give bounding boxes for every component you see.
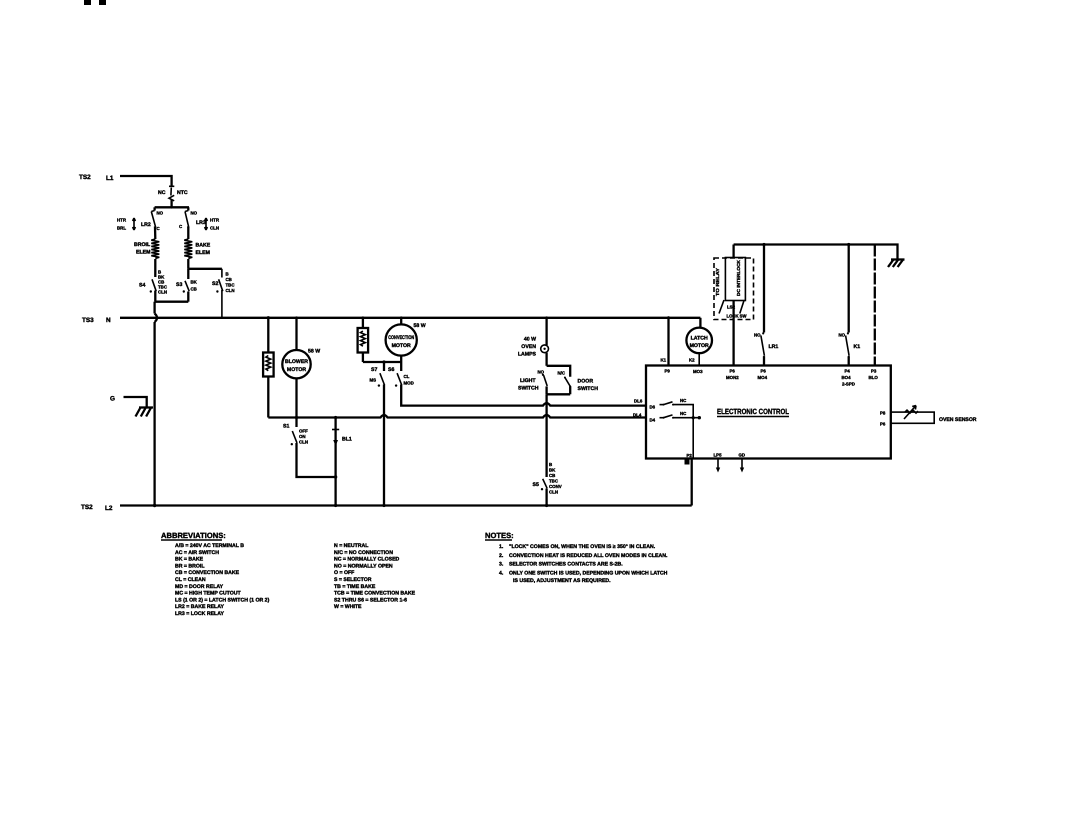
- svg-text:SELECTOR SWITCHES CONTACTS ARE: SELECTOR SWITCHES CONTACTS ARE S-2B.: [509, 562, 623, 568]
- svg-text:W = WHITE: W = WHITE: [334, 604, 362, 610]
- svg-text:SWITCH: SWITCH: [518, 386, 539, 392]
- svg-text:CL = CLEAN: CL = CLEAN: [175, 577, 206, 583]
- svg-text:S2: S2: [212, 281, 218, 287]
- svg-text:NC: NC: [680, 411, 687, 416]
- svg-text:LOCK SW: LOCK SW: [727, 314, 748, 319]
- svg-text:NC: NC: [680, 398, 687, 403]
- wire latch motor top: [699, 318, 701, 328]
- pin GD arrow: [739, 453, 746, 473]
- relay contact LR2: [117, 207, 164, 231]
- svg-text:IS USED, ADJUSTMENT AS REQUIRE: IS USED, ADJUSTMENT AS REQUIRED.: [513, 578, 611, 584]
- wire latch drop: [726, 245, 739, 381]
- svg-text:NOTES:: NOTES:: [485, 531, 514, 540]
- node bar after NTC: [155, 206, 189, 208]
- wire L1 to NTC: [120, 176, 172, 184]
- svg-text:CB: CB: [226, 277, 232, 282]
- svg-text:K2: K2: [689, 358, 695, 363]
- pin P2 bottom: [685, 453, 693, 506]
- bus N: [120, 317, 700, 319]
- svg-text:P6: P6: [880, 422, 886, 427]
- contact K upper NC: [660, 398, 694, 418]
- svg-text:S2 THRU S6 = SELECTOR 1-6: S2 THRU S6 = SELECTOR 1-6: [334, 597, 407, 603]
- svg-text:CL: CL: [404, 374, 410, 379]
- svg-text:NC: NC: [158, 190, 166, 196]
- svg-text:NO: NO: [157, 211, 164, 216]
- svg-text:OVEN SENSOR: OVEN SENSOR: [939, 417, 977, 423]
- svg-text:HTR: HTR: [210, 218, 220, 223]
- relay contact LR1: [754, 243, 778, 380]
- svg-text:B: B: [549, 462, 552, 467]
- svg-text:OFF: OFF: [299, 429, 308, 434]
- svg-text:DL6: DL6: [634, 398, 643, 403]
- top rail: [734, 245, 898, 260]
- svg-text:2-SPD: 2-SPD: [842, 382, 855, 387]
- svg-text:L2: L2: [105, 505, 113, 512]
- svg-text:BROIL: BROIL: [134, 242, 151, 248]
- svg-text:LATCH: LATCH: [691, 335, 708, 341]
- svg-text:4.: 4.: [499, 570, 504, 576]
- svg-text:S1: S1: [283, 424, 289, 430]
- heating element BAKE ELEM: [184, 239, 210, 258]
- svg-text:CB = CONVECTION BAKE: CB = CONVECTION BAKE: [175, 570, 240, 576]
- junction N bus: [267, 316, 270, 319]
- contact K lower NC: [660, 411, 702, 419]
- svg-text:MOTOR: MOTOR: [392, 343, 411, 349]
- svg-text:D6: D6: [650, 405, 656, 410]
- svg-text:LR1: LR1: [769, 344, 779, 350]
- oven lamps: [518, 318, 549, 366]
- svg-text:P2: P2: [687, 453, 693, 458]
- terminal TS2 L1: [79, 174, 114, 182]
- wire S1 to BL1 line: [297, 443, 336, 477]
- latch motor M3: [686, 328, 712, 374]
- svg-text:ELECTRONIC CONTROL: ELECTRONIC CONTROL: [717, 407, 789, 416]
- svg-text:S5: S5: [533, 482, 539, 488]
- svg-text:N/C: N/C: [558, 371, 566, 376]
- svg-text:BRL: BRL: [117, 226, 126, 231]
- svg-text:MO3: MO3: [693, 369, 703, 374]
- pin DL6: [634, 398, 656, 409]
- svg-text:NO = NORMALLY OPEN: NO = NORMALLY OPEN: [334, 563, 393, 569]
- svg-text:ELEM: ELEM: [196, 250, 210, 256]
- wire P3 BLO: [869, 245, 879, 381]
- light switch: [518, 366, 570, 392]
- abbreviations column 1: [175, 543, 270, 617]
- svg-text:DL4: DL4: [633, 413, 642, 418]
- switch S5: [533, 462, 562, 506]
- switch S6: [388, 362, 414, 387]
- svg-text:O = OFF: O = OFF: [334, 570, 354, 576]
- svg-text:BK: BK: [549, 468, 556, 473]
- svg-text:MD = DOOR RELAY: MD = DOOR RELAY: [175, 584, 224, 590]
- latch switch assembly dashed box: [714, 258, 754, 320]
- pin DL4: [633, 413, 656, 423]
- wire RES1 to DL4: [268, 415, 646, 418]
- svg-text:NC = NORMALLY CLOSED: NC = NORMALLY CLOSED: [334, 557, 400, 563]
- svg-text:BK: BK: [191, 280, 198, 285]
- svg-text:TO RELAY: TO RELAY: [715, 268, 720, 296]
- svg-text:ELEM: ELEM: [136, 250, 150, 256]
- switch S3: [176, 269, 198, 293]
- svg-text:S7: S7: [371, 367, 377, 373]
- svg-text:58 W: 58 W: [414, 323, 426, 329]
- svg-text:BLO: BLO: [869, 375, 879, 380]
- door switch: [547, 371, 599, 395]
- svg-text:TS2: TS2: [81, 504, 93, 511]
- svg-text:TCB = TIME CONVECTION BAKE: TCB = TIME CONVECTION BAKE: [334, 591, 416, 597]
- blower motor M1: [282, 318, 320, 427]
- svg-text:N: N: [106, 317, 111, 324]
- svg-text:BK = BAKE: BK = BAKE: [175, 557, 204, 563]
- svg-text:CLN: CLN: [158, 290, 167, 295]
- svg-text:MON2: MON2: [726, 375, 739, 380]
- svg-text:BL1: BL1: [342, 437, 352, 443]
- svg-text:P9: P9: [665, 369, 671, 374]
- svg-text:1.: 1.: [499, 544, 504, 550]
- svg-text:MS: MS: [370, 378, 377, 383]
- svg-text:CONV: CONV: [549, 484, 562, 489]
- svg-text:N/C = NO CONNECTION: N/C = NO CONNECTION: [334, 550, 393, 556]
- notes list: [499, 544, 668, 584]
- svg-text:LR2: LR2: [141, 222, 151, 228]
- svg-text:MC = HIGH TEMP CUTOUT: MC = HIGH TEMP CUTOUT: [175, 591, 241, 597]
- svg-text:P8: P8: [880, 411, 886, 416]
- svg-text:LR3 = LOCK RELAY: LR3 = LOCK RELAY: [175, 611, 224, 617]
- svg-text:BO4: BO4: [842, 375, 852, 380]
- wire motor bar: [363, 361, 401, 363]
- svg-text:MOD: MOD: [404, 381, 414, 386]
- svg-text:A/B = 240V AC TERMINAL B: A/B = 240V AC TERMINAL B: [175, 543, 244, 549]
- notes heading: [485, 531, 514, 540]
- svg-text:TS2: TS2: [79, 174, 91, 181]
- terminal TS3 N: [82, 317, 111, 324]
- svg-text:"LOCK" COMES ON, WHEN THE OVEN: "LOCK" COMES ON, WHEN THE OVEN IS ≥ 350°…: [509, 544, 656, 550]
- svg-text:GD: GD: [739, 453, 746, 458]
- electronic control box U1: [646, 366, 891, 459]
- terminal TS2 L2: [81, 504, 113, 512]
- switch S2: [212, 269, 235, 293]
- svg-text:NTC: NTC: [177, 190, 188, 196]
- junction: [153, 504, 156, 507]
- junction: [295, 416, 298, 419]
- svg-text:LIGHT: LIGHT: [520, 378, 536, 384]
- ground top right: [891, 258, 905, 260]
- svg-text:CONVECTION: CONVECTION: [388, 335, 414, 341]
- page header marks: [84, 0, 91, 5]
- svg-text:BAKE: BAKE: [196, 243, 211, 249]
- svg-text:58 W: 58 W: [308, 349, 320, 355]
- svg-text:L1: L1: [106, 175, 114, 182]
- thermal breaker BL1: [332, 416, 352, 506]
- svg-text:P3: P3: [871, 369, 877, 374]
- svg-text:NO: NO: [839, 333, 846, 338]
- svg-text:D4: D4: [650, 418, 656, 423]
- pin P9 wire: [661, 316, 671, 373]
- pin LP5 arrow: [714, 453, 723, 473]
- convection motor M2: [386, 318, 426, 362]
- svg-text:2.: 2.: [499, 553, 504, 559]
- svg-text:DC INTERLOCK: DC INTERLOCK: [736, 259, 741, 296]
- svg-text:LS (1 OR 2) = LATCH SWITCH (1: LS (1 OR 2) = LATCH SWITCH (1 OR 2): [175, 597, 270, 603]
- wire: [154, 227, 157, 240]
- svg-text:CLN: CLN: [299, 440, 308, 445]
- wire left main drop: [155, 302, 157, 506]
- abbreviations column 2: [334, 543, 416, 610]
- svg-text:MO4: MO4: [758, 375, 768, 380]
- svg-text:MOTOR: MOTOR: [287, 367, 306, 373]
- svg-text:ON: ON: [299, 434, 306, 439]
- relay contact LR3: [179, 207, 220, 230]
- bus L2: [120, 504, 692, 506]
- resistor RES2: [358, 318, 369, 362]
- abbreviations heading: [161, 531, 226, 540]
- svg-text:CLN: CLN: [549, 490, 558, 495]
- svg-text:TBC: TBC: [549, 479, 559, 484]
- wire S2 to N bus: [221, 290, 223, 318]
- oven sensor RT1: [880, 406, 977, 427]
- svg-text:S = SELECTOR: S = SELECTOR: [334, 577, 372, 583]
- wire: [187, 259, 189, 269]
- switch S7: [370, 362, 385, 506]
- breaker NTC: [158, 184, 188, 209]
- svg-text:S4: S4: [139, 283, 145, 289]
- wire relay common drop: [692, 418, 694, 459]
- svg-text:ABBREVIATIONS:: ABBREVIATIONS:: [161, 531, 226, 540]
- svg-text:K1: K1: [854, 344, 861, 350]
- relay contact K1: [839, 243, 861, 387]
- svg-text:OVEN: OVEN: [521, 344, 536, 350]
- svg-text:S3: S3: [176, 282, 182, 288]
- svg-text:NO: NO: [754, 333, 761, 338]
- svg-text:N = NEUTRAL: N = NEUTRAL: [334, 543, 369, 549]
- heating element BROIL ELEM: [134, 239, 159, 258]
- svg-text:DOOR: DOOR: [578, 379, 594, 385]
- svg-text:AC = AIR SWITCH: AC = AIR SWITCH: [175, 550, 219, 556]
- svg-text:3.: 3.: [499, 562, 504, 568]
- svg-text:CLN: CLN: [226, 288, 235, 293]
- svg-text:C: C: [157, 226, 161, 231]
- svg-text:CB: CB: [549, 473, 555, 478]
- svg-text:ONLY ONE SWITCH IS USED, DEPEN: ONLY ONE SWITCH IS USED, DEPENDING UPON …: [509, 570, 668, 576]
- svg-text:40 W: 40 W: [524, 337, 536, 343]
- svg-text:TB = TIME BAKE: TB = TIME BAKE: [334, 584, 376, 590]
- svg-text:P6: P6: [761, 369, 767, 374]
- svg-text:BLOWER: BLOWER: [285, 359, 308, 365]
- ground G: [139, 406, 153, 408]
- wire to bottom bar: [154, 291, 156, 302]
- svg-text:LP5: LP5: [714, 453, 723, 458]
- svg-text:NO: NO: [191, 211, 198, 216]
- svg-text:TS3: TS3: [82, 317, 94, 324]
- wire S6 to DL6: [401, 385, 646, 406]
- svg-text:K1: K1: [661, 358, 667, 363]
- svg-text:LAMPS: LAMPS: [518, 352, 537, 358]
- svg-text:P4: P4: [845, 369, 851, 374]
- svg-text:G: G: [110, 396, 115, 403]
- svg-text:TBC: TBC: [226, 283, 236, 288]
- wire: [187, 227, 189, 240]
- svg-text:LR2 = BAKE RELAY: LR2 = BAKE RELAY: [175, 604, 224, 610]
- svg-text:CB: CB: [191, 287, 197, 292]
- svg-text:B: B: [226, 272, 229, 277]
- svg-text:NO: NO: [538, 370, 545, 375]
- svg-text:C: C: [179, 224, 183, 229]
- svg-text:LR3: LR3: [196, 220, 206, 226]
- wire: [154, 259, 156, 277]
- svg-text:SWITCH: SWITCH: [578, 386, 599, 392]
- switch S1: [283, 424, 308, 446]
- wire lamp drop: [545, 394, 547, 477]
- svg-text:CONVECTION HEAT IS REDUCED ALL: CONVECTION HEAT IS REDUCED ALL OVEN MODE…: [509, 553, 668, 559]
- svg-text:BR = BROIL: BR = BROIL: [175, 563, 205, 569]
- svg-text:S6: S6: [388, 367, 394, 373]
- terminal G: [110, 396, 147, 408]
- switch S4: [139, 270, 168, 295]
- svg-text:CLN: CLN: [210, 226, 219, 231]
- svg-text:MOTOR: MOTOR: [690, 343, 709, 349]
- resistor RES1: [263, 318, 274, 418]
- svg-text:P6: P6: [730, 369, 736, 374]
- svg-text:HTR: HTR: [117, 218, 127, 223]
